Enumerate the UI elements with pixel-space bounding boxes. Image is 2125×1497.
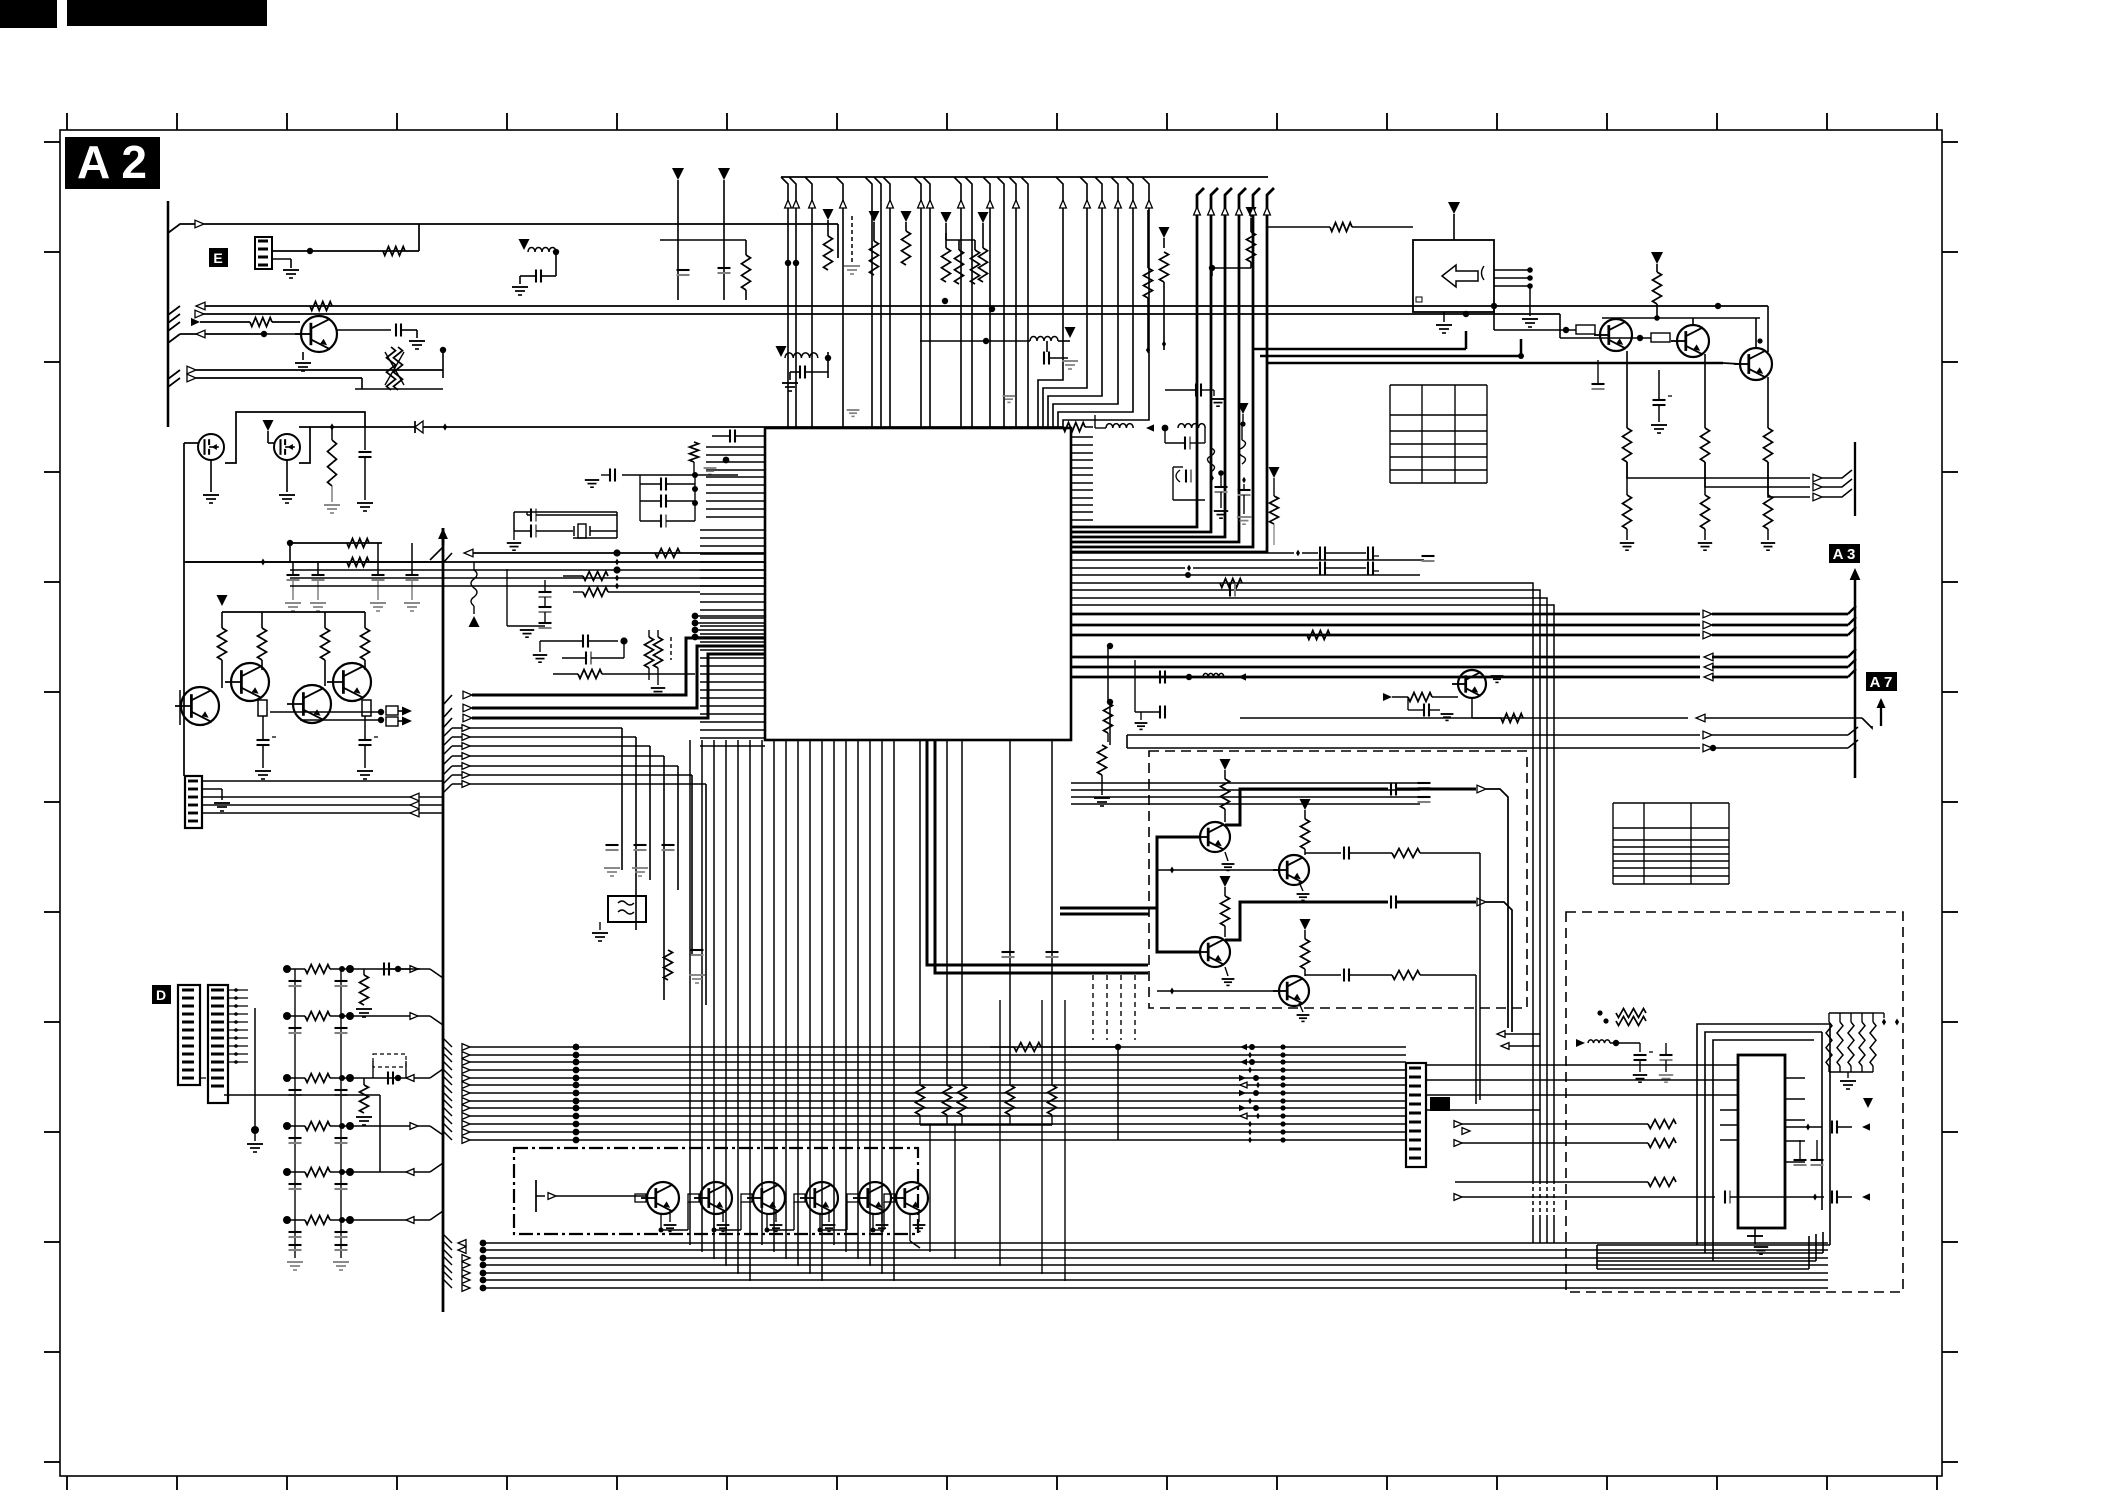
svg-text:D: D (156, 987, 166, 1003)
svg-text:A 2: A 2 (77, 136, 147, 188)
svg-text:A 3: A 3 (1833, 546, 1856, 563)
svg-text:A 7: A 7 (1870, 674, 1893, 691)
svg-text:E: E (213, 250, 222, 266)
